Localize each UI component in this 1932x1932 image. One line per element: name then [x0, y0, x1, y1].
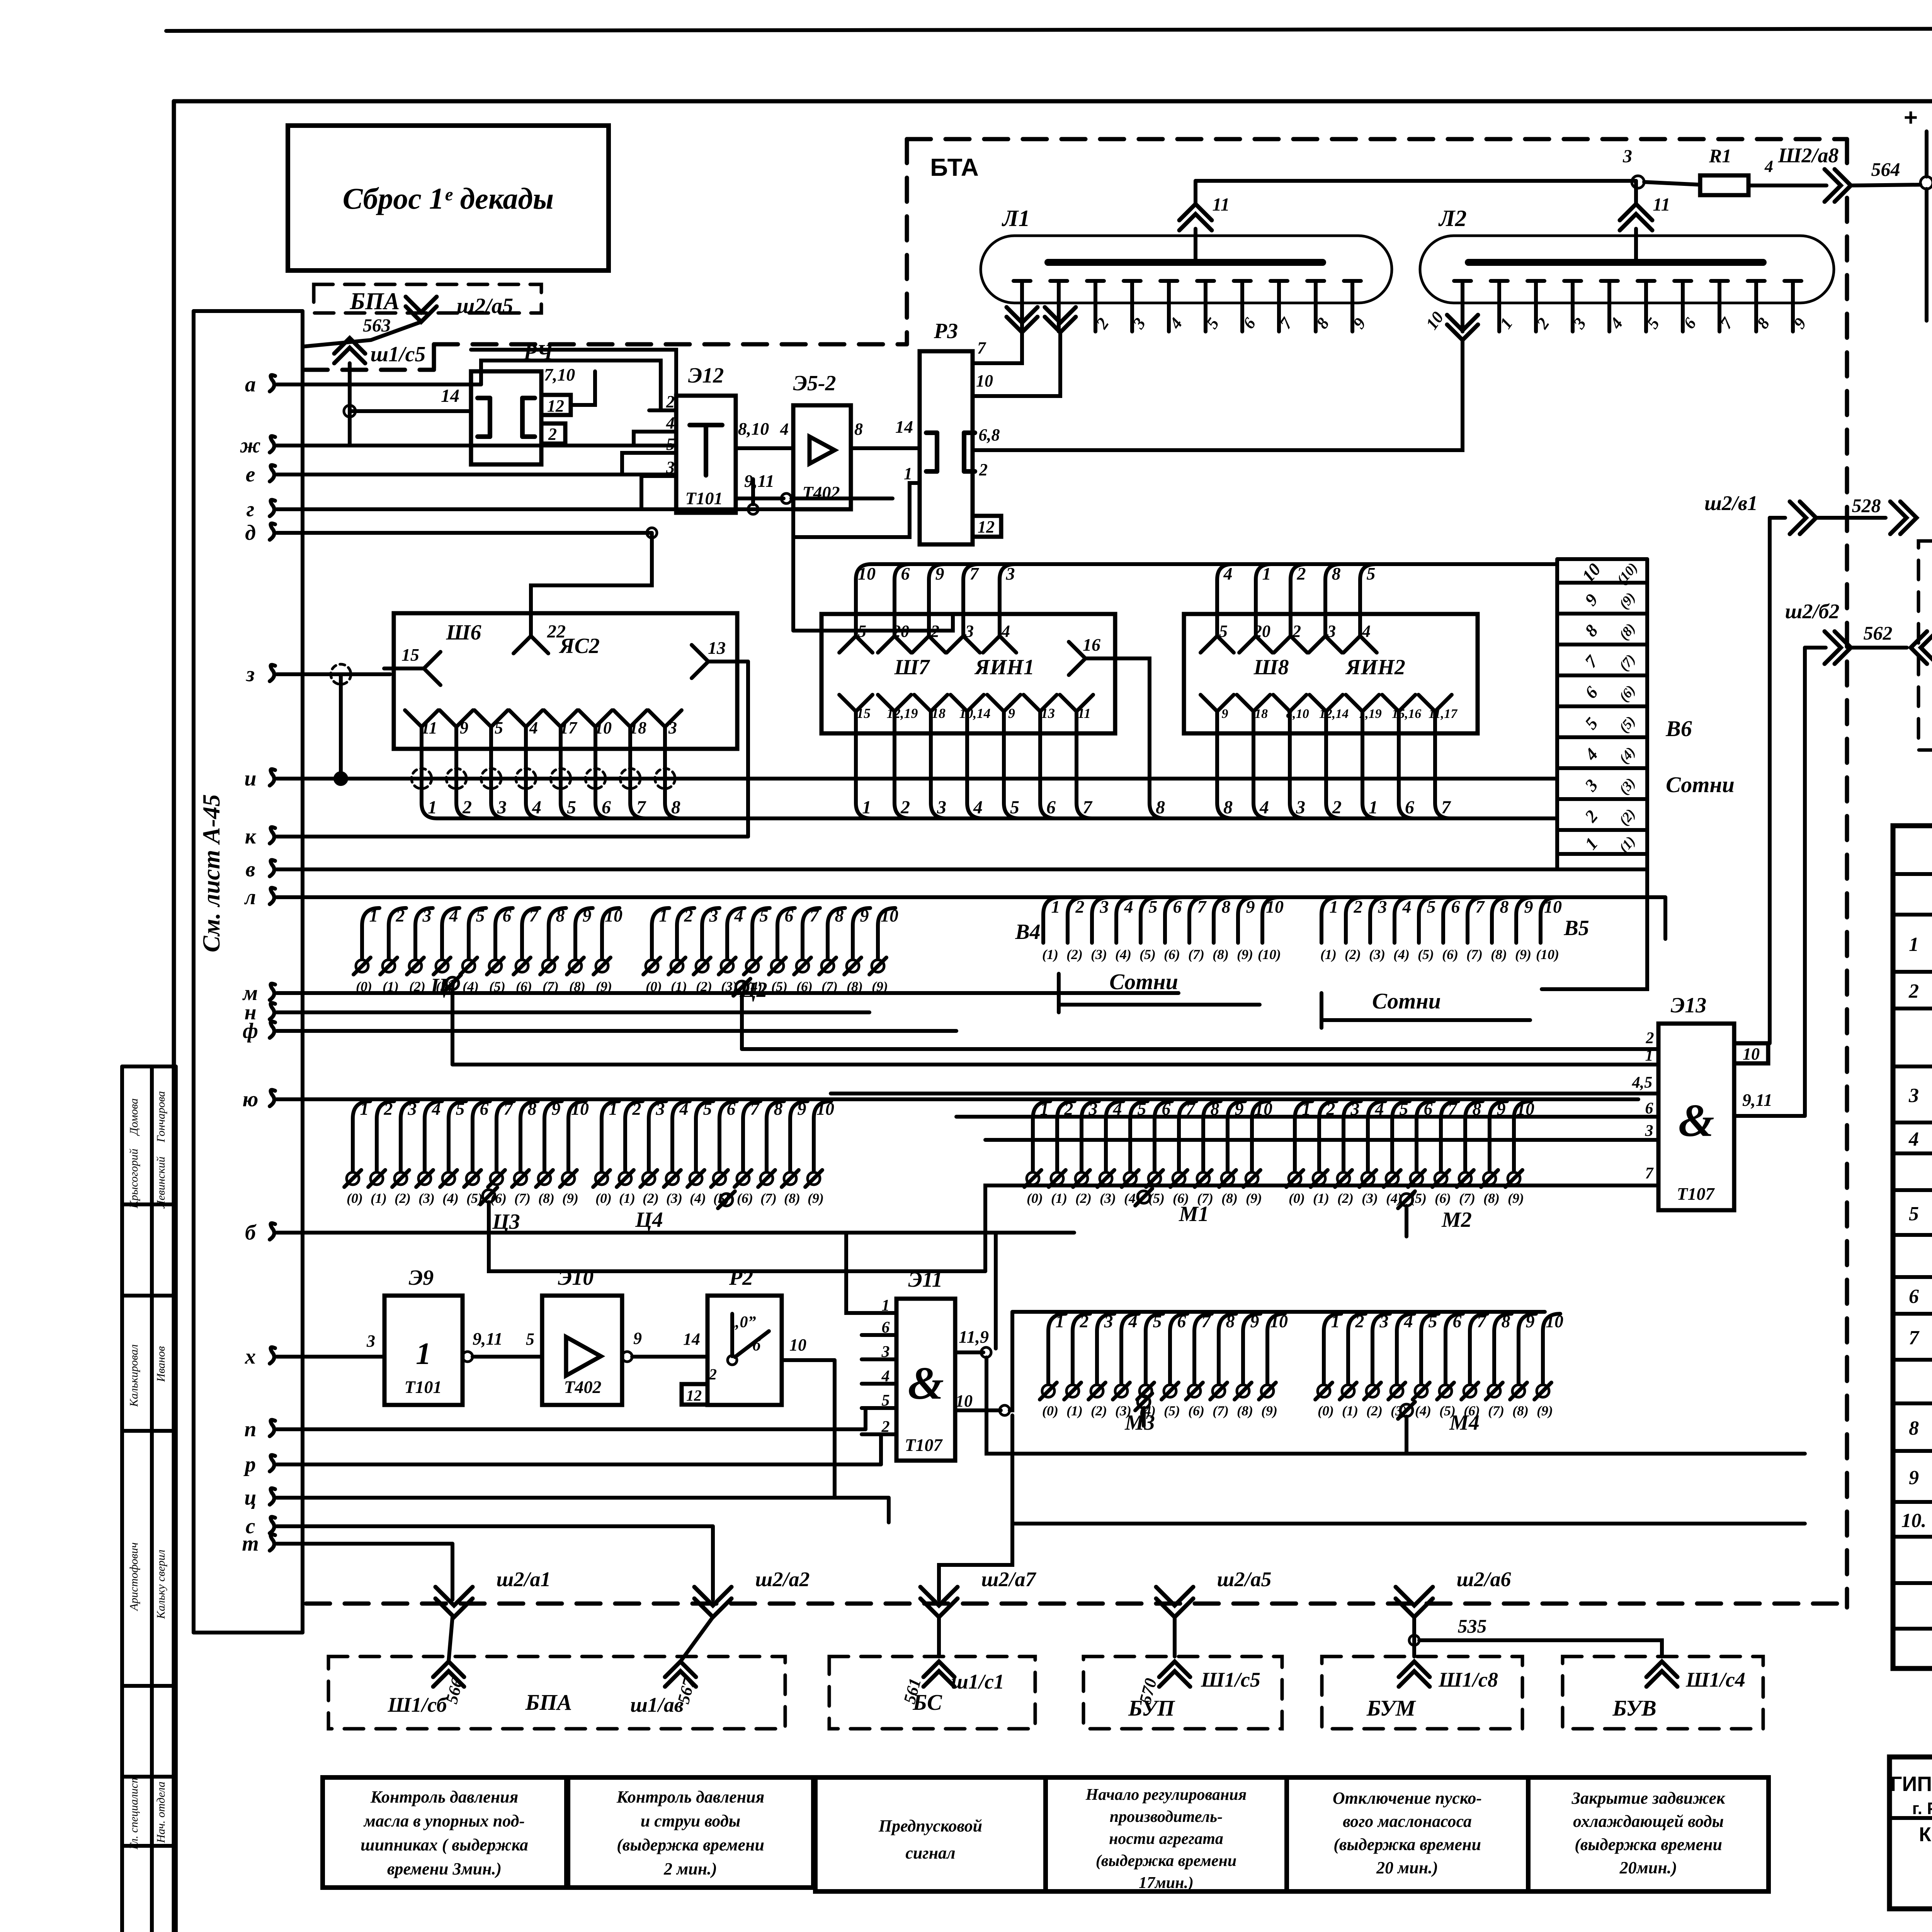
- L1 pin1 chevron down: [1007, 317, 1037, 332]
- svg-text:„0”: „0”: [732, 1313, 756, 1331]
- svg-text:вого маслонасоса: вого маслонасоса: [1343, 1812, 1472, 1831]
- Ц2 contact 2: [696, 960, 708, 972]
- svg-text:(2): (2): [696, 979, 712, 994]
- М1 contact 3: [1100, 1172, 1112, 1185]
- wire E11 out up to M3M4 bus: [1010, 1312, 1012, 1410]
- svg-text:(10): (10): [1258, 947, 1281, 962]
- svg-text:ю: ю: [243, 1087, 259, 1111]
- svg-text:7: 7: [636, 797, 646, 818]
- Ц2 pin 7: [803, 908, 820, 925]
- Ц4 contact 8: [784, 1172, 796, 1185]
- svg-text:(9): (9): [1515, 947, 1531, 962]
- svg-text:(0): (0): [1318, 1403, 1334, 1418]
- svg-text:7: 7: [1197, 897, 1207, 917]
- YaS2 bottom pin 5: [474, 710, 508, 727]
- svg-text:2: 2: [1332, 797, 1342, 818]
- svg-text:1: 1: [609, 1099, 618, 1119]
- svg-text:(8): (8): [784, 1190, 800, 1206]
- svg-text:к: к: [245, 825, 257, 849]
- YaIN1 bottom pin 13: [1024, 695, 1057, 711]
- svg-text:з: з: [245, 662, 255, 686]
- М2 contact 0: [1289, 1172, 1301, 1185]
- description box 4: [1046, 1777, 1287, 1891]
- L1 cathode pin 10: [1344, 279, 1361, 283]
- Ц1 pin 10: [602, 908, 619, 925]
- svg-text:6: 6: [1177, 1311, 1186, 1331]
- svg-text:14: 14: [683, 1330, 700, 1349]
- Ц1 contact 7: [543, 960, 555, 972]
- L2 anode pin 11: [1634, 229, 1638, 262]
- wire р: [277, 1463, 881, 1466]
- М2 pin 3: [1344, 1101, 1361, 1119]
- В4 pin 8: [1214, 897, 1231, 915]
- М3 contact 8: [1237, 1385, 1249, 1397]
- В5 pin 2: [1346, 897, 1363, 915]
- svg-text:л: л: [244, 885, 256, 909]
- svg-text:(9): (9): [872, 979, 888, 994]
- svg-text:(4): (4): [1393, 947, 1410, 962]
- wire 561: [939, 1524, 1012, 1600]
- svg-text:БПА: БПА: [525, 1690, 572, 1715]
- svg-text:(7): (7): [1466, 947, 1483, 962]
- BTA bottom edge dashed: [306, 1602, 1847, 1606]
- svg-text:охлаждающей воды: охлаждающей воды: [1573, 1812, 1724, 1831]
- svg-text:1: 1: [1645, 1047, 1653, 1065]
- svg-text:4: 4: [1764, 157, 1773, 176]
- svg-text:(0): (0): [646, 979, 662, 994]
- block BS bottom (dashed): [829, 1656, 1035, 1729]
- М3 pin 2: [1073, 1314, 1090, 1331]
- svg-text:3: 3: [1908, 1085, 1919, 1107]
- connector ш2/а5 chevron: [1156, 1599, 1193, 1617]
- М4 contact 9: [1537, 1385, 1549, 1397]
- М1 pin 1: [1033, 1101, 1050, 1119]
- no-connect marker: [585, 769, 605, 789]
- Ц3 contact 2: [395, 1172, 407, 1185]
- svg-text:БУМ: БУМ: [1366, 1696, 1417, 1721]
- М4 pin 3: [1372, 1314, 1390, 1331]
- svg-text:Т107: Т107: [1677, 1184, 1715, 1204]
- table row line: [1893, 913, 1932, 917]
- svg-text:9: 9: [1222, 707, 1228, 721]
- М2 pin 7: [1441, 1101, 1458, 1119]
- page frame left border: [172, 101, 176, 1932]
- Ц2 contact 7: [821, 960, 834, 972]
- svg-text:Начало регулирования: Начало регулирования: [1085, 1786, 1247, 1804]
- М2 contact 6: [1435, 1172, 1447, 1185]
- Ц2 pin 5: [752, 908, 770, 925]
- wire to E13 pin3: [985, 1138, 1658, 1142]
- svg-text:Р2: Р2: [729, 1266, 753, 1290]
- YaIN2 top pin 4: [1344, 636, 1377, 653]
- М2 contact 3: [1362, 1172, 1374, 1185]
- svg-text:9: 9: [798, 1099, 806, 1119]
- svg-text:(8): (8): [1491, 947, 1507, 962]
- YaIN2 bottom pin 8,10: [1273, 695, 1306, 711]
- svg-text:М2: М2: [1441, 1208, 1472, 1232]
- svg-text:3: 3: [408, 1099, 417, 1119]
- Ц4 pin 6: [719, 1101, 737, 1119]
- wire g junction circle: [748, 504, 758, 514]
- svg-text:5: 5: [1010, 797, 1019, 818]
- svg-text:В6: В6: [1665, 716, 1692, 741]
- svg-text:(выдержка времени: (выдержка времени: [1333, 1835, 1481, 1854]
- svg-text:ш2/а5: ш2/а5: [457, 294, 513, 318]
- svg-text:6: 6: [1453, 1311, 1462, 1331]
- wire л: [277, 895, 1665, 899]
- no-connect marker: [620, 769, 640, 789]
- no-connect marker: [551, 769, 571, 789]
- svg-text:Аристофович: Аристофович: [128, 1543, 140, 1612]
- svg-text:Ш6: Ш6: [446, 621, 481, 645]
- М2 contact 4: [1386, 1172, 1398, 1185]
- svg-text:М3: М3: [1124, 1411, 1155, 1435]
- svg-text:3: 3: [937, 797, 946, 818]
- svg-text:5: 5: [495, 718, 503, 737]
- svg-text:(9): (9): [1261, 1403, 1277, 1418]
- svg-text:10: 10: [956, 1391, 973, 1410]
- svg-text:&: &: [1678, 1095, 1714, 1146]
- Ц1 contact 6: [516, 960, 528, 972]
- svg-text:ш2/в1: ш2/в1: [1704, 492, 1758, 515]
- svg-text:п: п: [244, 1417, 256, 1441]
- М2 pin 4: [1368, 1101, 1385, 1119]
- svg-text:5: 5: [858, 622, 866, 641]
- svg-text:Ш1/с8: Ш1/с8: [1438, 1668, 1498, 1691]
- L1 cathode pin 4: [1124, 279, 1141, 283]
- wire to E13 pin2: [742, 1047, 1658, 1051]
- М3 pin 10: [1267, 1314, 1285, 1331]
- В4 pin 6: [1165, 897, 1182, 915]
- В5 pin 1: [1321, 897, 1339, 915]
- svg-text:4: 4: [1223, 564, 1233, 583]
- V6 output down: [1542, 869, 1647, 989]
- table row line: [1893, 1449, 1932, 1453]
- svg-text:8,10: 8,10: [738, 419, 769, 439]
- svg-text:14: 14: [895, 417, 913, 437]
- YaIN1 top pin 4: [983, 636, 1016, 653]
- svg-text:1: 1: [862, 797, 871, 818]
- Ц2 pin 8: [828, 908, 845, 925]
- Ц3 contact 5: [466, 1172, 479, 1185]
- svg-text:(9): (9): [596, 979, 612, 994]
- svg-text:д: д: [245, 521, 256, 545]
- svg-text:9: 9: [935, 564, 944, 583]
- М4 pin 8: [1494, 1314, 1512, 1331]
- В5 pin 5: [1419, 897, 1436, 915]
- М3 contact 6: [1188, 1385, 1201, 1397]
- М1 pin 3: [1082, 1101, 1099, 1119]
- L1 anode pin 11: [1194, 229, 1197, 262]
- block R2 relay: [707, 1296, 782, 1405]
- svg-text:(0): (0): [347, 1190, 363, 1206]
- М1 pin 9: [1228, 1101, 1245, 1119]
- svg-text:(6): (6): [737, 1190, 753, 1206]
- svg-text:Ш1/с4: Ш1/с4: [1685, 1668, 1745, 1691]
- wire b riser to E11 pin1: [846, 1233, 896, 1313]
- svg-text:528: 528: [1852, 495, 1881, 516]
- svg-text:(7): (7): [1459, 1190, 1475, 1206]
- svg-text:(10): (10): [1536, 947, 1559, 962]
- Ц2 pin 1: [652, 908, 669, 925]
- svg-text:(7): (7): [543, 979, 559, 994]
- block E10 T402: [542, 1296, 622, 1405]
- Ц2 pin 10: [878, 908, 895, 925]
- Ц2 contact 5: [771, 960, 784, 972]
- М4 pin 1: [1324, 1314, 1341, 1331]
- scan top edge line: [166, 28, 1932, 31]
- svg-text:4: 4: [734, 906, 743, 925]
- Ц4 pin 8: [767, 1101, 784, 1119]
- Ц1 pin 1: [362, 908, 379, 925]
- В4 pin 9: [1238, 897, 1255, 915]
- Ц1 pin 2: [389, 908, 406, 925]
- Ts1 tap contact: [446, 977, 459, 990]
- svg-text:4,5: 4,5: [1632, 1074, 1653, 1092]
- svg-text:2: 2: [384, 1099, 393, 1119]
- wire to E13 pin1: [452, 1063, 1658, 1066]
- svg-text:1: 1: [416, 1337, 431, 1371]
- svg-text:(1): (1): [619, 1190, 635, 1206]
- svg-text:9: 9: [1250, 1311, 1259, 1331]
- table row line: [1893, 1500, 1932, 1504]
- svg-text:(5): (5): [1164, 1403, 1180, 1418]
- svg-text:11: 11: [421, 718, 437, 737]
- svg-text:См. лист А-45: См. лист А-45: [197, 794, 225, 952]
- Ц4 contact 6: [737, 1172, 749, 1185]
- svg-text:Э13: Э13: [1671, 993, 1706, 1017]
- V6 cell line 5: [1557, 735, 1647, 739]
- svg-text:9: 9: [633, 1329, 642, 1348]
- М4 pin 9: [1519, 1314, 1536, 1331]
- В4 pin 10: [1262, 897, 1280, 915]
- L2 cathode pin 9: [1784, 279, 1801, 283]
- svg-text:Ш8: Ш8: [1253, 655, 1289, 679]
- svg-text:БТА: БТА: [930, 153, 979, 181]
- svg-text:КОМПРЕССОРНАЯ: КОМПРЕССОРНАЯ: [1919, 1823, 1932, 1846]
- М4 pin 7: [1470, 1314, 1487, 1331]
- signature strip column lines: [120, 1066, 124, 1932]
- М4 contact 6: [1464, 1385, 1476, 1397]
- wire E10-R2: [632, 1355, 707, 1359]
- svg-text:3: 3: [1327, 622, 1336, 641]
- YaIN2 bottom pin 12,14: [1310, 695, 1343, 711]
- svg-text:5: 5: [456, 1099, 465, 1119]
- svg-text:(4): (4): [442, 1190, 459, 1206]
- L2 cathode pin 0: [1454, 279, 1471, 283]
- svg-text:Ш2/а8: Ш2/а8: [1778, 144, 1839, 167]
- М2 pin 2: [1319, 1101, 1337, 1119]
- svg-text:3: 3: [1379, 1311, 1389, 1331]
- svg-text:ш2/а6: ш2/а6: [1457, 1568, 1511, 1591]
- svg-text:(2): (2): [1091, 1403, 1107, 1418]
- svg-text:3: 3: [656, 1099, 665, 1119]
- svg-text:(9): (9): [808, 1190, 824, 1206]
- Ц4 contact 2: [643, 1172, 655, 1185]
- svg-text:564: 564: [1871, 158, 1900, 180]
- svg-text:ЯИН1: ЯИН1: [974, 655, 1034, 679]
- wire 9,11 up to 562: [1803, 648, 1807, 1116]
- svg-text:Т101: Т101: [685, 488, 723, 508]
- description box 5: [1287, 1777, 1528, 1891]
- М1 contact 4: [1124, 1172, 1136, 1185]
- table row line: [1893, 872, 1932, 876]
- node +110V: [1920, 177, 1932, 189]
- svg-text:ш2/а1: ш2/а1: [497, 1568, 551, 1591]
- svg-text:1: 1: [360, 1099, 369, 1119]
- svg-text:(8): (8): [569, 979, 585, 994]
- Ц1 contact 8: [569, 960, 582, 972]
- М4 pin 5: [1421, 1314, 1439, 1331]
- svg-text:(2): (2): [1366, 1403, 1383, 1418]
- svg-text:б: б: [245, 1221, 257, 1245]
- Ц4 contact 1: [619, 1172, 631, 1185]
- no-connect marker: [481, 769, 501, 789]
- L1 cathode pin 3: [1087, 279, 1104, 283]
- М2 pin 9: [1490, 1101, 1507, 1119]
- YaIN2 bottom pin 18: [1237, 695, 1270, 711]
- R3 input 1 wire: [793, 483, 920, 537]
- svg-text:4: 4: [973, 797, 983, 818]
- Ц4 contact 4: [690, 1172, 702, 1185]
- Ц3 contact 8: [538, 1172, 551, 1185]
- svg-text:3: 3: [366, 1332, 375, 1350]
- Ц4 pin 3: [649, 1101, 666, 1119]
- wire 563: [303, 322, 421, 347]
- svg-text:7,19: 7,19: [1359, 707, 1382, 721]
- svg-text:2: 2: [1908, 980, 1919, 1002]
- svg-text:г: г: [247, 497, 255, 521]
- L2 cathode pin 4: [1601, 279, 1618, 283]
- М3 contact 0: [1042, 1385, 1054, 1397]
- М2 pin 10: [1514, 1101, 1531, 1119]
- svg-text:9,11: 9,11: [1742, 1090, 1772, 1110]
- svg-text:9: 9: [1526, 1311, 1535, 1331]
- svg-text:3: 3: [1378, 897, 1387, 917]
- В4 pin 4: [1116, 897, 1134, 915]
- М1 contact 9: [1246, 1172, 1258, 1185]
- svg-text:Отключение пуско-: Отключение пуско-: [1333, 1789, 1482, 1808]
- svg-text:8: 8: [1909, 1417, 1919, 1439]
- block BUV (dashed): [1563, 1656, 1763, 1729]
- description box 3: [815, 1777, 1046, 1891]
- svg-text:9,11: 9,11: [473, 1329, 503, 1349]
- table row line: [1893, 1358, 1932, 1362]
- L2 cathode pin 6: [1674, 279, 1691, 283]
- svg-text:3: 3: [1104, 1311, 1113, 1331]
- svg-text:сигнал: сигнал: [905, 1844, 955, 1862]
- wire к: [277, 835, 748, 838]
- svg-text:562: 562: [1864, 622, 1893, 644]
- svg-text:(7): (7): [1488, 1403, 1504, 1418]
- svg-text:(6): (6): [796, 979, 813, 994]
- V6 cell line 8: [1557, 828, 1647, 832]
- L2 cathode pin 2: [1527, 279, 1544, 283]
- М1 contact 8: [1221, 1172, 1234, 1185]
- svg-text:5: 5: [1367, 564, 1376, 583]
- svg-text:Л1: Л1: [1001, 206, 1030, 231]
- svg-text:Ц4: Ц4: [635, 1208, 663, 1232]
- svg-text:1: 1: [1369, 797, 1378, 818]
- note box Sbros 1st dekady: [288, 126, 609, 270]
- svg-text:9: 9: [1524, 897, 1533, 917]
- table row line: [1893, 970, 1932, 974]
- L2 cathode pin 3: [1564, 279, 1581, 283]
- М1 pin 7: [1179, 1101, 1196, 1119]
- M1 tap: [1138, 1191, 1150, 1203]
- Ц3 pin 9: [544, 1101, 562, 1119]
- Ц2 contact 4: [746, 960, 759, 972]
- table row line: [1893, 1188, 1932, 1192]
- svg-text:(0): (0): [595, 1190, 612, 1206]
- М4 pin 10: [1543, 1314, 1560, 1331]
- Ц3 pin 3: [401, 1101, 418, 1119]
- М3 contact 5: [1164, 1385, 1176, 1397]
- svg-text:10: 10: [595, 718, 612, 737]
- RCh pin 12 box: [541, 395, 571, 415]
- svg-text:ш1/с5: ш1/с5: [370, 342, 425, 366]
- svg-text:Домова: Домова: [128, 1099, 140, 1136]
- В4 pin 3: [1092, 897, 1109, 915]
- svg-text:(6): (6): [1188, 1403, 1204, 1418]
- wire е: [277, 473, 676, 476]
- Ц3 pin 4: [425, 1101, 442, 1119]
- svg-text:а: а: [245, 372, 256, 396]
- svg-text:17мин.): 17мин.): [1139, 1874, 1194, 1892]
- svg-text:10: 10: [1270, 1311, 1288, 1331]
- svg-text:2: 2: [1646, 1029, 1654, 1047]
- svg-text:10: 10: [816, 1099, 834, 1119]
- svg-text:2: 2: [979, 460, 988, 479]
- svg-text:15: 15: [401, 645, 419, 665]
- М1 pin 8: [1203, 1101, 1221, 1119]
- В5 pin 3: [1370, 897, 1388, 915]
- Ц4 contact 0: [595, 1172, 608, 1185]
- L2 anode bar: [1468, 259, 1763, 266]
- svg-text:12,19: 12,19: [887, 706, 918, 721]
- svg-text:9: 9: [552, 1099, 561, 1119]
- svg-text:7: 7: [504, 1099, 514, 1119]
- svg-text:х: х: [245, 1345, 256, 1369]
- svg-text:М4: М4: [1449, 1411, 1480, 1435]
- L1 cathode pin 6: [1197, 279, 1214, 283]
- Ц1 pin 5: [469, 908, 486, 925]
- Ц4 contact 9: [808, 1172, 820, 1185]
- svg-text:Э5-2: Э5-2: [793, 371, 836, 395]
- wire p riser to E11 pin5: [866, 1408, 896, 1429]
- Ц4 contact 7: [760, 1172, 773, 1185]
- М4 contact 5: [1439, 1385, 1452, 1397]
- YaIN2 top pin 20: [1239, 636, 1272, 653]
- Ts4 tap: [720, 1194, 733, 1206]
- connector ш2/а6 chevron: [1396, 1599, 1433, 1617]
- svg-text:(7): (7): [821, 979, 838, 994]
- svg-text:10: 10: [976, 371, 993, 390]
- svg-text:4: 4: [666, 413, 675, 432]
- svg-text:7: 7: [1476, 897, 1485, 917]
- connector ш2/а1 chevron: [435, 1599, 473, 1617]
- wire 110V vertical: [1925, 131, 1929, 177]
- trunk cable band: [192, 311, 196, 1633]
- svg-text:17: 17: [560, 718, 578, 737]
- Ц2 contact 0: [646, 960, 658, 972]
- М2 pin 6: [1417, 1101, 1434, 1119]
- block RCh pulse shaper: [471, 371, 541, 464]
- svg-text:13: 13: [708, 638, 726, 658]
- svg-text:масла в упорных под-: масла в упорных под-: [363, 1811, 525, 1830]
- V6 cell line 3: [1557, 673, 1647, 677]
- М3 contact 4: [1139, 1385, 1152, 1397]
